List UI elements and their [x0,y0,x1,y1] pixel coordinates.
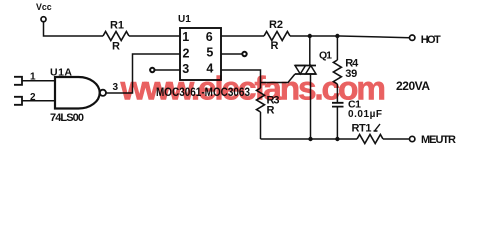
svg-text:HOT: HOT [421,34,441,46]
wire hot junction down to triac MT2 [309,36,311,66]
svg-text:Q1: Q1 [319,49,332,61]
svg-text:U1: U1 [178,14,191,25]
NAND gate input connector 2 [14,96,22,106]
svg-text:R1: R1 [110,19,124,31]
wire hot junction down to R4 [336,36,338,60]
NAND gate U1A body [55,77,100,109]
resistor R3 [257,88,265,112]
wire U1 pin 4 to R3 top [221,70,261,88]
unconnected terminal at U1 pin 3 [150,68,154,72]
wire R2 to HOT [290,36,410,38]
wire R4 to C1 [336,84,338,102]
bottom rail wire R3 to RT1 [261,138,358,140]
svg-text:U1A: U1A [50,67,72,79]
svg-text:5: 5 [206,45,213,59]
wire triac gate to R3 column [261,74,296,83]
svg-text:3: 3 [113,82,119,93]
svg-text:0.01µF: 0.01µF [348,109,382,120]
svg-text:1: 1 [182,30,189,44]
wire R3 bottom to rail [260,112,262,139]
resistor R2 [264,32,290,41]
svg-text:Vcc: Vcc [36,2,52,12]
svg-text:MEUTR: MEUTR [421,134,456,146]
wire C1 to bottom rail [336,107,338,139]
wire input2 to gate [22,100,55,102]
wire triac MT1 down to bottom rail [310,74,312,139]
wire input1 to gate [22,80,55,82]
svg-text:R: R [271,40,279,52]
optocoupler U1 body [180,28,221,80]
wire RT1 to MEUTR terminal [383,138,410,140]
junction snubber column / hot line [335,34,339,38]
svg-text:www.elecfans.com: www.elecfans.com [120,71,385,108]
wire U1 pin 5 stub [221,53,242,55]
svg-text:RT1: RT1 [352,123,372,135]
svg-text:R: R [112,40,120,52]
svg-text:R2: R2 [269,19,283,31]
unconnected terminal at U1 pin 5 [242,52,246,56]
wire gate output to U1 pin 2 [106,54,180,93]
power Vcc terminal circle [41,17,46,22]
resistor R4 [333,60,341,84]
wire R1 to U1 pin 1 [129,35,180,37]
thermistor strike mark [374,124,381,131]
triac Q1 [295,66,316,75]
junction snubber column / bottom rail [335,137,339,141]
wire Vcc down and right to R1 [44,22,104,36]
thermistor RT1 [357,135,383,144]
junction triac column / hot line [308,34,312,38]
terminal HOT [410,35,415,40]
junction triac column / bottom rail [308,137,312,141]
svg-text:2: 2 [183,46,190,60]
terminal MEUTR [410,136,415,141]
capacitor C1 [332,103,344,107]
resistor R1 [103,32,129,41]
svg-text:74LS00: 74LS00 [50,112,84,124]
wire terminal to U1 pin 3 [154,69,180,71]
NAND gate input connector 1 [14,76,22,86]
svg-text:220VA: 220VA [396,79,430,93]
wire U1 pin 6 to R2 [221,35,264,37]
svg-text:6: 6 [206,30,213,44]
NAND gate U1A output bubble [100,90,106,96]
